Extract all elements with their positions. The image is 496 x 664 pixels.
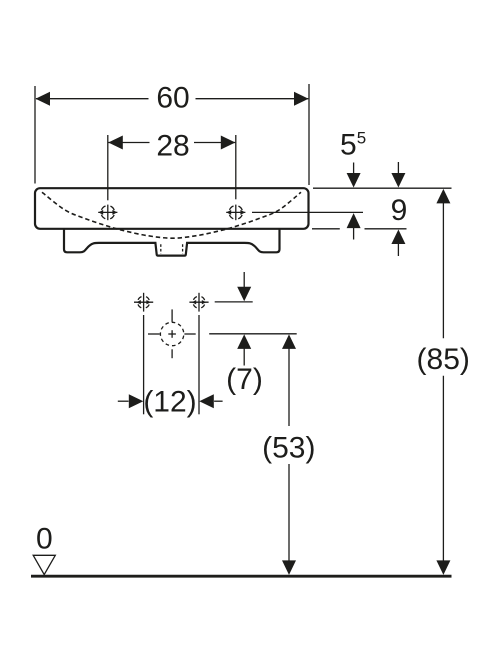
svg-text:(85): (85) — [417, 343, 470, 376]
svg-text:5: 5 — [340, 129, 357, 162]
svg-text:60: 60 — [156, 82, 189, 115]
svg-text:28: 28 — [156, 130, 189, 163]
svg-text:(53): (53) — [262, 431, 315, 464]
svg-text:(12): (12) — [143, 386, 196, 419]
svg-text:0: 0 — [36, 522, 53, 555]
svg-text:5: 5 — [357, 129, 366, 148]
svg-text:(7): (7) — [226, 363, 263, 396]
svg-text:9: 9 — [391, 194, 408, 227]
